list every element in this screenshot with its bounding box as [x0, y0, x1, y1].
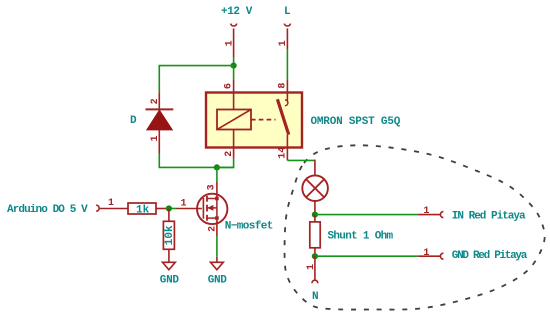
lamp pin lead top — [314, 160, 316, 176]
wire diode anode to drain net — [159, 154, 233, 168]
svg-text:Arduino DO 5 V: Arduino DO 5 V — [7, 204, 88, 216]
wire GND rail — [315, 255, 418, 257]
diode D pin 2 lead — [158, 92, 160, 109]
wire 1k to gate junction — [156, 208, 166, 210]
mosfet source link — [207, 217, 217, 219]
svg-text:14: 14 — [278, 147, 289, 159]
svg-text:3: 3 — [207, 184, 218, 190]
mosfet body arrow — [207, 207, 217, 209]
resistor R1 1k body — [128, 203, 156, 214]
mosfet Q1 pin 3 lead — [216, 181, 218, 198]
N connector pin 1 — [314, 256, 316, 280]
svg-text:L: L — [284, 6, 291, 18]
ground symbol right — [211, 262, 224, 270]
Arduino connector open-circle — [96, 205, 99, 211]
junction node gate — [166, 205, 172, 211]
relay pin 6 — [233, 79, 235, 109]
wire junction to mosfet gate — [172, 208, 177, 210]
relay U1 body OMRON SPST G5Q — [206, 93, 302, 148]
pin 1 of +12V flag — [233, 28, 235, 57]
resistor R2 pin bottom — [168, 249, 170, 262]
svg-text:10k: 10k — [164, 225, 176, 245]
junction node drain net — [214, 164, 220, 170]
svg-text:2: 2 — [208, 226, 219, 232]
wire IN rail — [315, 214, 418, 216]
resistor R2 10k body — [163, 221, 174, 249]
svg-text:GND: GND — [208, 275, 228, 287]
svg-text:GND: GND — [160, 275, 180, 287]
relay coil rectangle — [217, 110, 251, 130]
svg-text:1: 1 — [423, 206, 429, 217]
relay coil diagonal — [217, 110, 251, 130]
power flag L open-circle symbol — [284, 24, 290, 26]
svg-text:N: N — [312, 291, 319, 303]
svg-text:1: 1 — [306, 264, 317, 270]
svg-text:1: 1 — [181, 199, 187, 210]
svg-text:6: 6 — [223, 83, 234, 89]
svg-text:1: 1 — [423, 248, 429, 259]
shunt resistor pin bottom — [314, 248, 316, 256]
ground pin right — [216, 257, 218, 263]
diode D triangle — [147, 110, 173, 130]
pin 1 of L flag — [286, 28, 288, 49]
relay pin 8 — [286, 79, 288, 100]
wire 1k input — [99, 208, 128, 210]
svg-text:+12 V: +12 V — [221, 6, 253, 18]
mosfet Q1 drain wire — [216, 167, 218, 181]
dashed highlight ellipse (Red Pitaya measurement region) — [285, 145, 545, 309]
svg-text:1: 1 — [150, 135, 161, 141]
svg-text:GND Red Pitaya: GND Red Pitaya — [452, 250, 528, 262]
svg-text:1k: 1k — [136, 204, 150, 216]
lamp pin lead bottom — [314, 201, 316, 215]
GND connector open-circle — [440, 253, 443, 259]
wire +12V pin to junction — [233, 58, 235, 66]
relay actuation dashed link — [251, 119, 276, 121]
mosfet Q1 body circle — [197, 194, 227, 224]
svg-text:Shunt 1 Ohm: Shunt 1 Ohm — [328, 230, 394, 242]
diode D cathode bar — [146, 108, 174, 110]
lamp symbol — [302, 175, 328, 201]
relay pin 14 — [286, 135, 288, 161]
mosfet internal vertical — [216, 199, 218, 219]
svg-text:8: 8 — [278, 83, 289, 89]
wire junction to relay pin 6 — [233, 66, 235, 80]
junction node GND rail — [312, 253, 318, 259]
relay switch blade — [277, 99, 288, 134]
svg-text:OMRON SPST G5Q: OMRON SPST G5Q — [311, 116, 401, 128]
power flag +12V open-circle symbol — [231, 24, 237, 26]
mosfet Q1 pin 2 lead — [216, 220, 218, 236]
mosfet gate bar — [202, 198, 204, 219]
IN connector pin 1 — [418, 214, 441, 216]
svg-text:2: 2 — [150, 98, 161, 104]
resistor R2 10k pin top — [168, 209, 170, 222]
relay fixed contact arc — [285, 100, 288, 106]
svg-text:1: 1 — [278, 40, 289, 46]
junction node +12V — [231, 63, 237, 69]
mosfet gate pin 1 lead — [177, 208, 202, 210]
ground symbol left — [163, 262, 176, 270]
N connector open-circle — [312, 280, 318, 283]
svg-text:1: 1 — [108, 198, 114, 209]
wire relay pin 14 to lamp — [287, 159, 315, 161]
svg-text:D: D — [130, 115, 137, 127]
wire source to ground — [216, 236, 218, 257]
svg-text:IN Red Pitaya: IN Red Pitaya — [452, 210, 526, 222]
shunt resistor body — [310, 222, 320, 248]
wire L to relay pin 8 — [286, 50, 288, 80]
svg-text:1: 1 — [225, 40, 236, 46]
mosfet channel segments — [206, 196, 208, 202]
IN connector open-circle — [440, 212, 443, 218]
svg-text:N−mosfet: N−mosfet — [225, 221, 273, 233]
shunt resistor R pin top — [314, 215, 316, 222]
wire junction to diode column — [159, 66, 233, 93]
mosfet drain link — [207, 198, 217, 200]
diode D pin 1 lead — [158, 130, 160, 154]
svg-text:2: 2 — [224, 151, 235, 157]
wire relay pin 2 to drain net — [217, 159, 234, 168]
junction node IN — [312, 212, 318, 218]
relay pin 2 — [233, 130, 235, 159]
GND connector pin 1 — [418, 255, 441, 257]
